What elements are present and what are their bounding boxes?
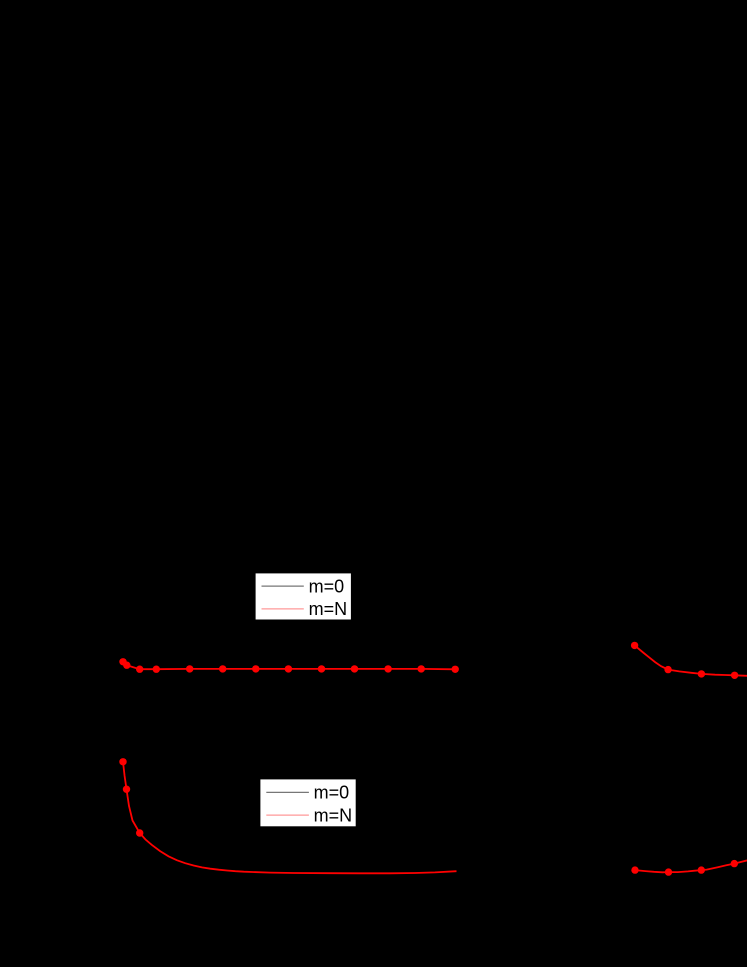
markers m=N bottom-left panel <box>119 758 143 837</box>
legend box top-left panel <box>256 573 351 619</box>
svg-text:m=N: m=N <box>314 805 353 825</box>
svg-text:m=0: m=0 <box>314 783 350 803</box>
legend sample line m=N (bottom-left) <box>266 814 309 816</box>
legend box bottom-left panel <box>260 779 355 826</box>
curve m=N bottom-right panel (cropped) <box>635 860 747 872</box>
markers m=N bottom-right panel <box>631 860 738 876</box>
legend sample line m=0 (top-left) <box>262 585 304 587</box>
markers m=N top-left panel <box>119 658 459 673</box>
curve m=N bottom-left panel <box>123 762 457 874</box>
curve m=N top-left panel <box>123 662 455 670</box>
svg-text:m=N: m=N <box>309 599 348 619</box>
legend sample line m=N (top-left) <box>262 608 304 610</box>
markers m=N top-right panel <box>631 642 738 679</box>
svg-text:m=0: m=0 <box>309 576 345 596</box>
curve m=N top-right panel (cropped) <box>635 645 747 675</box>
legend sample line m=0 (bottom-left) <box>266 791 309 793</box>
